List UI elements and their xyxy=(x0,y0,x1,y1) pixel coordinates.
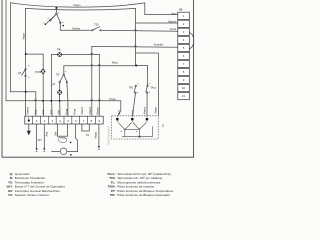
svg-text:11: 11 xyxy=(182,94,185,98)
svg-text:PT: PT xyxy=(52,83,56,87)
svg-text:Marrón: Marrón xyxy=(142,106,146,114)
svg-text:Azul: Azul xyxy=(45,131,49,136)
svg-text:Marrón: Marrón xyxy=(88,106,92,114)
svg-text:Marrón: Marrón xyxy=(80,106,84,114)
svg-text:Negro: Negro xyxy=(94,131,98,138)
svg-text:Marrón: Marrón xyxy=(168,19,177,23)
svg-text:Piloto luminoso de Bloqueo Que: Piloto luminoso de Bloqueo Quemador. xyxy=(117,193,171,197)
svg-text:PB:: PB: xyxy=(110,193,115,197)
svg-text:M8: M8 xyxy=(179,8,183,12)
svg-text:TA: TA xyxy=(86,133,89,137)
svg-text:10: 10 xyxy=(182,86,186,90)
svg-text:Azul: Azul xyxy=(171,11,176,15)
svg-text:V/I:: V/I: xyxy=(8,193,13,197)
svg-text:Selector Verano-Invierno.: Selector Verano-Invierno. xyxy=(15,193,50,197)
svg-text:Azul: Azul xyxy=(33,109,37,114)
svg-text:Negro: Negro xyxy=(74,3,82,7)
svg-text:Amarillo: Amarillo xyxy=(154,43,164,47)
svg-text:Verde: Verde xyxy=(170,27,177,31)
svg-text:Violeta: Violeta xyxy=(72,27,80,31)
svg-text:PON: PON xyxy=(35,70,41,74)
svg-text:Marrón: Marrón xyxy=(26,106,30,114)
svg-text:PB: PB xyxy=(57,47,61,51)
svg-text:T90: T90 xyxy=(94,23,99,27)
svg-text:Rosa: Rosa xyxy=(110,97,117,101)
svg-text:T60: T60 xyxy=(129,85,134,89)
svg-text:Azul: Azul xyxy=(49,109,53,114)
svg-text:Rosa: Rosa xyxy=(72,108,76,114)
svg-text:Rosa: Rosa xyxy=(65,108,69,114)
svg-text:Negro: Negro xyxy=(154,106,158,113)
svg-text:Rosa: Rosa xyxy=(112,61,119,65)
svg-text:Azul: Azul xyxy=(130,109,134,114)
svg-text:bk7: bk7 xyxy=(38,138,43,142)
svg-text:Azul: Azul xyxy=(41,109,45,114)
svg-text:Blanco: Blanco xyxy=(96,107,100,115)
svg-text:Negro: Negro xyxy=(22,32,26,39)
svg-text:TB: TB xyxy=(56,73,60,77)
svg-text:TAcs: TAcs xyxy=(150,85,156,89)
svg-text:O/I: O/I xyxy=(18,71,22,75)
